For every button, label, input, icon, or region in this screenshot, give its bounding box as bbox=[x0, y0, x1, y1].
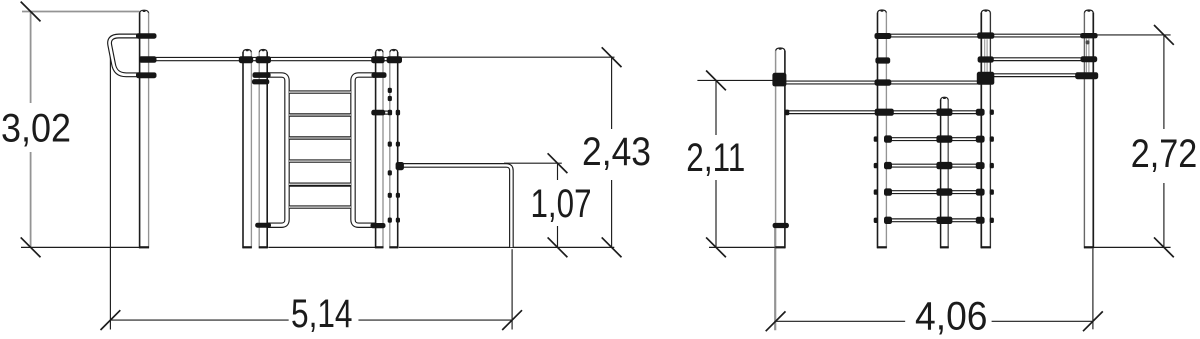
svg-text:3,02: 3,02 bbox=[1, 107, 71, 151]
svg-text:4,06: 4,06 bbox=[915, 294, 988, 338]
svg-text:2,72: 2,72 bbox=[1131, 132, 1198, 176]
svg-text:2,43: 2,43 bbox=[582, 130, 651, 174]
svg-text:5,14: 5,14 bbox=[291, 292, 353, 336]
svg-text:1,07: 1,07 bbox=[531, 182, 592, 226]
svg-text:2,11: 2,11 bbox=[686, 136, 745, 180]
